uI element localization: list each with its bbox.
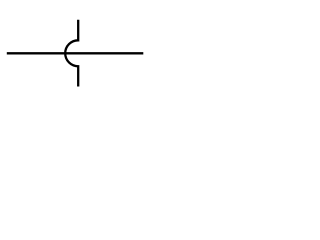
wire (vertical net with crossover hop over horizontal wire) bbox=[65, 20, 78, 87]
wire (horizontal net) bbox=[7, 52, 144, 54]
